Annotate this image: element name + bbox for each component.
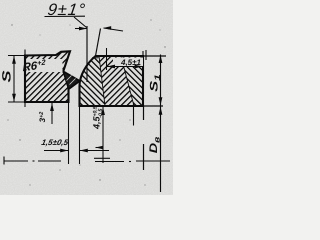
leader line: [74, 17, 87, 28]
right plate internal boundary 1: [99, 56, 105, 106]
svg-text:1,5±0,5: 1,5±0,5: [41, 138, 70, 147]
small dim arrow to left near bottom: [96, 147, 104, 149]
centerline: [4, 158, 170, 161]
svg-text:S: S: [0, 70, 14, 82]
svg-text:4,5±1: 4,5±1: [120, 58, 142, 67]
left plate body: [25, 51, 80, 102]
S1 top extension: [143, 55, 166, 57]
root gap dim line left: [44, 150, 69, 152]
label 4,5±1 background: [113, 58, 143, 68]
angle dim right segment: [104, 28, 124, 31]
left plate nose (dense dark): [63, 72, 79, 90]
angle extension line A (vertical): [86, 26, 88, 82]
root gap extension left: [68, 102, 70, 164]
nose white flecks: [67, 76, 72, 81]
S dimension extension top: [8, 55, 25, 57]
label R6+2 background: [27, 59, 63, 72]
small dim 4,5 line: [102, 107, 104, 164]
groove mouth tick: [92, 57, 99, 59]
dimension 4,5±1 line: [107, 66, 144, 68]
angle label underline: [45, 15, 86, 17]
S dimension line: [13, 56, 15, 103]
right plate middle band: [99, 56, 134, 106]
right plate outer part: [121, 56, 143, 106]
left edge overshoot top: [24, 50, 26, 56]
tick on top extension: [145, 50, 147, 60]
angle extension line B (groove face extended): [96, 29, 101, 57]
root gap dim line right: [80, 150, 110, 152]
right plate wedge near groove: [80, 56, 106, 106]
boundary 2 extension below plate: [133, 106, 135, 126]
left edge overshoot bottom: [24, 102, 26, 107]
right plate outline: [80, 56, 144, 106]
bottom face extension right: [143, 105, 163, 107]
scan noise speckles: [7, 19, 165, 185]
small dim 3+2 line: [51, 103, 53, 125]
right plate internal boundary 2: [121, 56, 134, 106]
right edge overshoot above: [142, 51, 144, 56]
right edge extension below: [143, 106, 145, 120]
centerline start tick: [3, 157, 5, 165]
dimension 4,5±1 extension tick: [106, 48, 108, 70]
S1 / Dv dimension vertical: [160, 55, 162, 193]
root gap extension right: [79, 106, 81, 164]
S dimension extension bottom: [8, 101, 25, 103]
angle dim left segment: [75, 28, 87, 30]
